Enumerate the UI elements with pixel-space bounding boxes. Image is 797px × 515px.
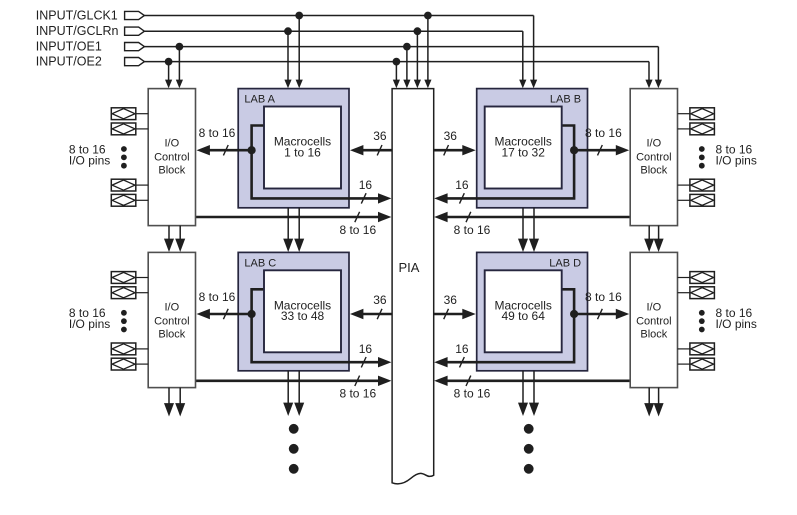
- svg-text:Block: Block: [640, 165, 667, 177]
- svg-text:I/O pins: I/O pins: [69, 317, 110, 331]
- svg-text:17 to 32: 17 to 32: [502, 145, 546, 159]
- svg-text:8 to 16: 8 to 16: [199, 290, 236, 304]
- svg-text:36: 36: [444, 129, 458, 143]
- svg-text:36: 36: [373, 293, 387, 307]
- svg-text:LAB B: LAB B: [550, 94, 581, 106]
- svg-text:INPUT/GLCK1: INPUT/GLCK1: [36, 9, 118, 23]
- svg-text:I/O pins: I/O pins: [716, 153, 757, 167]
- svg-text:49 to 64: 49 to 64: [502, 309, 546, 323]
- svg-text:36: 36: [373, 129, 387, 143]
- svg-text:Block: Block: [158, 165, 185, 177]
- svg-text:8 to 16: 8 to 16: [454, 223, 491, 237]
- svg-text:Control: Control: [636, 152, 671, 164]
- svg-text:LAB D: LAB D: [549, 258, 581, 270]
- svg-text:8 to 16: 8 to 16: [454, 387, 491, 401]
- svg-text:I/O: I/O: [165, 301, 180, 313]
- svg-text:LAB C: LAB C: [244, 258, 276, 270]
- svg-text:Control: Control: [154, 315, 189, 327]
- svg-text:8 to 16: 8 to 16: [339, 223, 376, 237]
- svg-text:I/O: I/O: [165, 138, 180, 150]
- svg-text:Block: Block: [158, 328, 185, 340]
- svg-text:Control: Control: [636, 315, 671, 327]
- svg-text:LAB A: LAB A: [244, 94, 275, 106]
- svg-text:8 to 16: 8 to 16: [585, 126, 622, 140]
- svg-text:8 to 16: 8 to 16: [585, 290, 622, 304]
- svg-text:PIA: PIA: [399, 260, 420, 275]
- svg-text:16: 16: [359, 342, 373, 356]
- svg-text:16: 16: [359, 178, 373, 192]
- svg-text:36: 36: [444, 293, 458, 307]
- svg-text:1 to 16: 1 to 16: [284, 145, 321, 159]
- svg-text:I/O: I/O: [647, 138, 662, 150]
- svg-text:INPUT/OE1: INPUT/OE1: [36, 40, 102, 54]
- svg-text:INPUT/GCLRn: INPUT/GCLRn: [36, 24, 119, 38]
- svg-text:33 to 48: 33 to 48: [281, 309, 325, 323]
- svg-text:Block: Block: [640, 328, 667, 340]
- svg-text:I/O pins: I/O pins: [69, 153, 110, 167]
- svg-text:16: 16: [455, 178, 469, 192]
- svg-text:I/O: I/O: [647, 301, 662, 313]
- svg-text:Control: Control: [154, 152, 189, 164]
- svg-text:16: 16: [455, 342, 469, 356]
- svg-text:8 to 16: 8 to 16: [199, 126, 236, 140]
- svg-text:INPUT/OE2: INPUT/OE2: [36, 55, 102, 69]
- svg-text:I/O pins: I/O pins: [716, 317, 757, 331]
- svg-text:8 to 16: 8 to 16: [339, 387, 376, 401]
